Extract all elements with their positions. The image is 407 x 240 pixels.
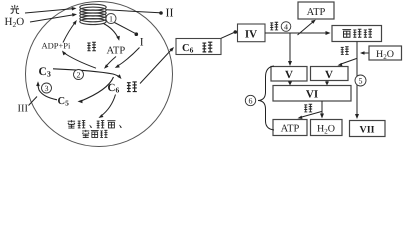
box IV (238, 24, 266, 42)
svg-text:I: I (140, 37, 144, 49)
arrow H2O into line (362, 52, 369, 54)
arrow C6 sugar to C6 box (140, 49, 172, 84)
curve ADP+Pi up to grana (63, 22, 76, 43)
box V2 (311, 67, 349, 81)
box H2O (bottom) (311, 120, 343, 136)
box pyruvate 丙酮酸 (332, 26, 382, 42)
svg-text:V: V (285, 69, 293, 81)
curve junction to ADP+Pi (64, 53, 97, 69)
label protein line2 蛋白质 (82, 130, 89, 138)
svg-text:H2O: H2O (5, 16, 25, 29)
line pyruvate down to VII (356, 42, 358, 118)
chloroplast outer ellipse (26, 2, 173, 147)
svg-text:C5: C5 (58, 96, 70, 108)
arrow V1 to VI (289, 81, 291, 84)
arrow: H2O to grana (30, 15, 75, 22)
box H2O (right) (369, 46, 402, 60)
node dot I (135, 32, 139, 36)
svg-text:ATP: ATP (281, 124, 300, 135)
box C6 sugar (outside) (176, 39, 221, 55)
label 光 (light) (10, 5, 19, 14)
circled 5 (355, 75, 366, 86)
svg-text:C6: C6 (182, 43, 194, 55)
arrow V2 to VI (326, 81, 328, 84)
box ATP (bottom) (273, 120, 307, 136)
curve grana to ATP (104, 24, 119, 39)
line circled1 to node I (115, 23, 135, 34)
svg-text:ADP+Pi: ADP+Pi (42, 41, 72, 51)
arrow junction down into V1 (289, 33, 291, 64)
label 酶 at step 4 (270, 22, 278, 30)
return curve to C5 (81, 77, 114, 101)
svg-text:IV: IV (245, 29, 257, 41)
connector C6 box to IV with dot (221, 33, 234, 39)
svg-text:5: 5 (359, 77, 363, 86)
circled 1 on grana (106, 14, 116, 24)
svg-text:3: 3 (45, 84, 49, 93)
arrow branch to ATP bottom (300, 112, 322, 118)
circled 2 (74, 70, 84, 80)
arrow branch up to ATP box (298, 21, 315, 35)
node dot II (159, 11, 163, 15)
svg-text:4: 4 (284, 22, 288, 31)
curve C5 to C3 (38, 84, 57, 100)
box V1 (271, 67, 307, 82)
line III into chloroplast (29, 97, 38, 106)
arrow: light to grana (25, 9, 74, 13)
label 酶 enzyme (chloroplast) (87, 42, 96, 50)
circled 4 (281, 22, 291, 32)
arrow branch to V2 (340, 59, 357, 65)
line grana to node II (107, 10, 160, 13)
label starch/fat line1 淀粉、脂肪、 (68, 120, 75, 128)
svg-text:H2O: H2O (376, 49, 394, 61)
svg-text:H2O: H2O (317, 124, 335, 136)
brace for step 6 (258, 66, 274, 130)
grana thylakoid stack (80, 4, 106, 24)
svg-text:II: II (166, 6, 174, 20)
circled 6 (245, 95, 255, 105)
circled 3 (42, 83, 52, 93)
label 酶 at step 5 (341, 47, 349, 55)
svg-text:C3: C3 (39, 66, 51, 79)
svg-text:2: 2 (77, 71, 81, 80)
main line C3 to C6 sugar (53, 69, 120, 77)
arrow IV to pyruvate (265, 32, 329, 34)
svg-text:VI: VI (306, 89, 318, 101)
svg-text:6: 6 (249, 97, 253, 106)
label 酶 at step below VI (304, 104, 312, 112)
box ATP (top) (298, 2, 334, 19)
line VI down to H2O (321, 101, 323, 117)
curve ATP down to junction (106, 57, 117, 68)
curve I down to junction (117, 48, 140, 67)
curve C6 sugar to starch (101, 95, 116, 117)
box VII (350, 121, 386, 137)
svg-text:ATP: ATP (307, 7, 326, 18)
svg-text:C6: C6 (108, 82, 120, 95)
svg-text:1: 1 (109, 15, 113, 24)
svg-text:V: V (325, 69, 333, 81)
svg-text:III: III (18, 104, 29, 115)
box VI (273, 86, 351, 102)
svg-text:ATP: ATP (107, 46, 126, 57)
svg-text:VII: VII (359, 125, 374, 136)
